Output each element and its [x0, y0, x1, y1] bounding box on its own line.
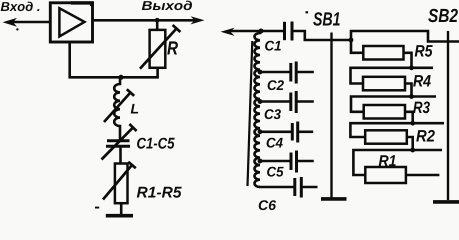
label C5: [267, 167, 284, 177]
capacitor C5: [291, 151, 297, 173]
input arrow (left): [3, 18, 18, 27]
wire C4 stub: [298, 131, 314, 134]
resistor R1: [365, 167, 406, 183]
label R1-R5: [137, 187, 182, 198]
label SB1: [313, 12, 340, 26]
wire coil tap to C4: [260, 131, 292, 134]
node ladder input junction: [349, 38, 354, 43]
wire R5 left lead: [351, 40, 363, 53]
resistor R1-R5 (variable): [115, 164, 128, 204]
wire coil tap to C5: [260, 160, 291, 163]
capacitor C1: [285, 22, 293, 41]
label R5: [415, 45, 433, 57]
resistor R4: [363, 77, 405, 91]
node tap C2: [258, 70, 263, 75]
wire C1 to ladder (step down): [292, 31, 351, 40]
wire bypass to SB2: [351, 31, 459, 42]
capacitor C3: [291, 91, 296, 113]
wire R1 right lead: [406, 174, 440, 177]
node output junction: [155, 18, 160, 23]
scan speck: [95, 207, 99, 209]
label Вход: [1, 2, 40, 12]
label C2: [268, 80, 284, 90]
scan speck: [306, 11, 309, 13]
node R4-R3 tap: [409, 94, 414, 99]
resistor R2: [365, 130, 407, 143]
amplifier A1 box: [50, 3, 92, 42]
wire tap line 2: [351, 68, 434, 84]
label SB2: [428, 9, 458, 23]
resistor R5: [363, 46, 403, 60]
coil core line: [248, 41, 253, 186]
wire R bottom lead: [121, 68, 158, 78]
wire C5 stub: [297, 160, 314, 163]
capacitor C6: [295, 177, 302, 198]
label C3: [265, 109, 281, 119]
node tap C3: [258, 99, 263, 104]
node R3-R2 tap: [410, 121, 415, 126]
wire R2 right lead: [407, 137, 413, 150]
resistor R: [150, 30, 166, 68]
label R2: [416, 130, 435, 142]
ground (SB2): [433, 200, 459, 204]
label R: [167, 41, 178, 54]
resistor R3: [364, 105, 405, 119]
capacitor C1-C5 (variable): [106, 141, 130, 147]
wire input line: [10, 21, 50, 24]
node R5-R4 tap: [409, 65, 414, 70]
wire R top lead: [156, 20, 159, 30]
wire R4 right lead: [405, 84, 412, 97]
wire tap line 5: [353, 150, 442, 175]
variable arrow of L: [104, 89, 134, 122]
wire C2 stub: [296, 71, 314, 74]
variable arrow of R: [140, 25, 180, 69]
wire cap to R1-R5: [119, 146, 122, 163]
input arrow (right circuit, pointing left): [221, 28, 235, 36]
inductor L: [114, 77, 120, 140]
variable arrow of R1-R5: [103, 162, 136, 200]
scan speck: [16, 28, 18, 30]
wire R5 right lead: [404, 53, 412, 68]
node R2-R1 tap: [410, 148, 415, 153]
label R1: [379, 155, 396, 166]
label C6: [259, 200, 276, 210]
wire coil tap to C2: [260, 71, 291, 74]
wire C3 stub: [296, 100, 314, 103]
node tap C5: [258, 159, 263, 164]
label C1: [265, 41, 281, 51]
ground (left circuit): [106, 214, 133, 218]
wire tap line 3: [351, 97, 436, 112]
node tap C4: [258, 129, 263, 134]
wire amplifier bottom lead: [70, 42, 121, 77]
variable arrow of C1-C5: [102, 124, 137, 160]
output arrow (right): [191, 16, 205, 24]
capacitor C2: [291, 62, 296, 84]
wire tap line 4: [350, 123, 444, 137]
label C1-C5: [137, 138, 175, 149]
switch SB1 common bus: [330, 33, 332, 198]
wire output line: [93, 19, 198, 22]
label L: [131, 104, 139, 114]
node coil top junction: [259, 29, 264, 34]
wire right-circuit input line: [228, 30, 285, 33]
wire to ground (left circuit): [120, 203, 123, 215]
capacitor C4: [292, 122, 297, 143]
ground (SB1): [321, 197, 347, 201]
switch SB2 common bus: [447, 31, 449, 200]
inductor L (tapped coil): [254, 31, 260, 187]
wire R3 right lead: [405, 112, 413, 123]
label R3: [413, 102, 430, 114]
wire coil tap to C3: [260, 100, 291, 103]
wire coil bottom to C6: [259, 186, 295, 189]
amplifier A1 triangle: [59, 8, 84, 36]
label C4: [267, 138, 283, 148]
label Выход: [142, 1, 192, 11]
label R4: [413, 75, 431, 86]
wire C6 stub: [301, 186, 317, 189]
node junction: [119, 75, 124, 80]
